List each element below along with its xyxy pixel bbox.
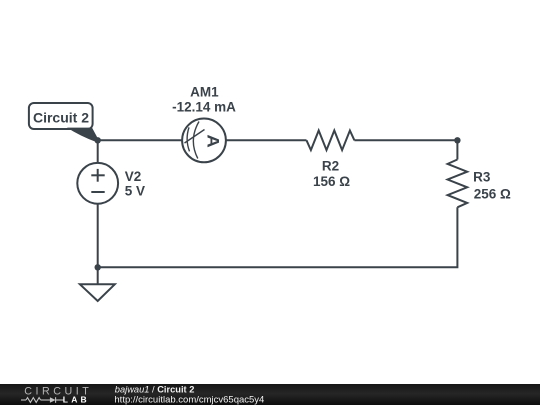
svg-text:LAB: LAB [63,395,90,405]
svg-text:156 Ω: 156 Ω [313,174,350,189]
svg-text:bajwau1 / Circuit 2: bajwau1 / Circuit 2 [115,385,195,395]
svg-text:5 V: 5 V [125,184,145,199]
svg-text:http://circuitlab.com/cmjcv65q: http://circuitlab.com/cmjcv65qac5y4 [114,394,264,405]
svg-text:-12.14 mA: -12.14 mA [172,100,236,115]
svg-text:Circuit 2: Circuit 2 [33,109,89,125]
svg-text:256 Ω: 256 Ω [474,187,511,202]
svg-text:R3: R3 [473,170,491,185]
svg-text:R2: R2 [322,158,339,173]
svg-text:V2: V2 [125,169,142,184]
svg-text:A: A [204,134,223,148]
svg-text:AM1: AM1 [190,84,219,99]
